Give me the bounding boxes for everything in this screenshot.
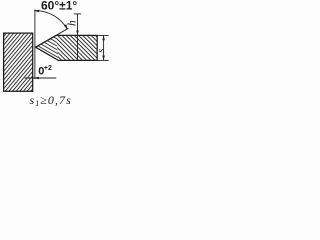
right plate with double-bevel end (36, 35, 98, 60)
gap dimension 0+2 (25, 77, 57, 79)
arc arrowhead top (33, 10, 39, 13)
svg-text:60°±1°: 60°±1° (41, 0, 77, 12)
left plate (hatched block) (4, 33, 33, 91)
h dimension (74, 13, 81, 15)
arc arrowhead bottom (64, 24, 68, 29)
svg-text:+2: +2 (44, 65, 52, 72)
svg-text:h: h (66, 20, 78, 26)
root face / gap extension line (34, 10, 36, 80)
s dimension (plate thickness) (97, 34, 108, 36)
svg-text:s: s (96, 49, 107, 53)
bevel line extension (60 deg leg) (36, 28, 69, 47)
60 deg dimension arc (36, 11, 68, 29)
